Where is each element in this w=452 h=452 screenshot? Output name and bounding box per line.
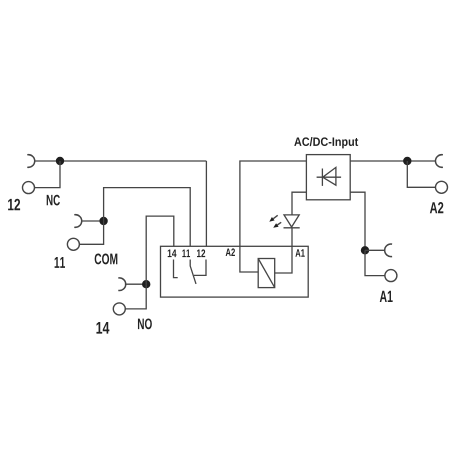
wire: relay pin A2 up and to AC/DC input left port xyxy=(240,161,307,272)
label NC xyxy=(47,195,60,206)
LED emission arrow 2 xyxy=(277,222,281,225)
wire: NO up and over to relay pin 14 xyxy=(146,216,174,284)
label NO xyxy=(138,318,152,329)
clamp circle A2 xyxy=(436,181,448,193)
wire: COM to junction xyxy=(82,220,104,222)
node: NC junction dot xyxy=(56,157,64,165)
relay pin label A2 xyxy=(226,248,235,256)
wire: COM up and over to relay pin 11 xyxy=(104,188,191,247)
node: A1 junction dot xyxy=(361,246,369,254)
contact 14 fixed xyxy=(174,260,178,278)
contact 11 common lever xyxy=(190,260,196,284)
diode D1 inside converter xyxy=(317,176,342,178)
LED D2 xyxy=(284,215,299,227)
node: COM junction dot xyxy=(99,217,107,225)
wire: NO to junction xyxy=(125,283,146,285)
terminal socket arc 11/COM xyxy=(74,215,81,228)
wire: COM drop to clamp circle xyxy=(79,221,103,244)
AC/DC converter box U1 xyxy=(306,155,350,200)
wire: AC/DC bottom-left port to LED xyxy=(292,192,306,215)
terminal socket arc A2 xyxy=(435,155,442,168)
relay pin label 12 xyxy=(197,249,205,257)
label AC/DC-Input xyxy=(294,137,358,148)
wire: NC top run to relay pin 12 xyxy=(35,160,207,162)
wire: A1 drop to clamp circle xyxy=(365,250,385,275)
wire: relay pin 12 vertical xyxy=(205,161,207,246)
clamp circle 14 xyxy=(113,303,125,315)
wire: A2 drop to clamp circle xyxy=(407,161,435,187)
wire: LED cathode down to relay pin A1 and coil xyxy=(275,228,292,273)
terminal socket arc 12/NC xyxy=(27,155,34,168)
label A1 xyxy=(380,291,393,302)
node: A2 junction dot xyxy=(403,157,411,165)
clamp circle 12 xyxy=(23,182,35,194)
label 14 xyxy=(96,322,109,334)
label 12 xyxy=(8,199,20,211)
label COM xyxy=(95,254,118,265)
label A2 xyxy=(430,202,444,213)
contact 12 fixed xyxy=(194,260,206,276)
relay K1 body xyxy=(161,246,309,297)
wire: A1 junction to socket arc xyxy=(365,249,385,251)
terminal socket arc 14/NO xyxy=(118,278,125,291)
terminal socket arc A1 xyxy=(385,244,392,257)
LED emission arrow 1 xyxy=(273,215,277,218)
clamp circle 11 xyxy=(67,238,79,250)
clamp circle A1 xyxy=(385,270,397,282)
wire: AC/DC bottom-right port down to A1 terminal xyxy=(350,192,365,250)
relay pin label A1 xyxy=(295,249,304,257)
wire: NO drop to clamp circle xyxy=(125,284,146,309)
node: NO junction dot xyxy=(142,280,150,288)
label 11 xyxy=(55,257,65,268)
relay pin label 11 xyxy=(182,250,190,258)
wire: AC/DC right port to A2 terminal xyxy=(350,160,435,162)
wire: NC drop to clamp circle xyxy=(35,161,61,188)
relay pin label 14 xyxy=(168,250,177,258)
relay coil K1 xyxy=(258,259,275,288)
